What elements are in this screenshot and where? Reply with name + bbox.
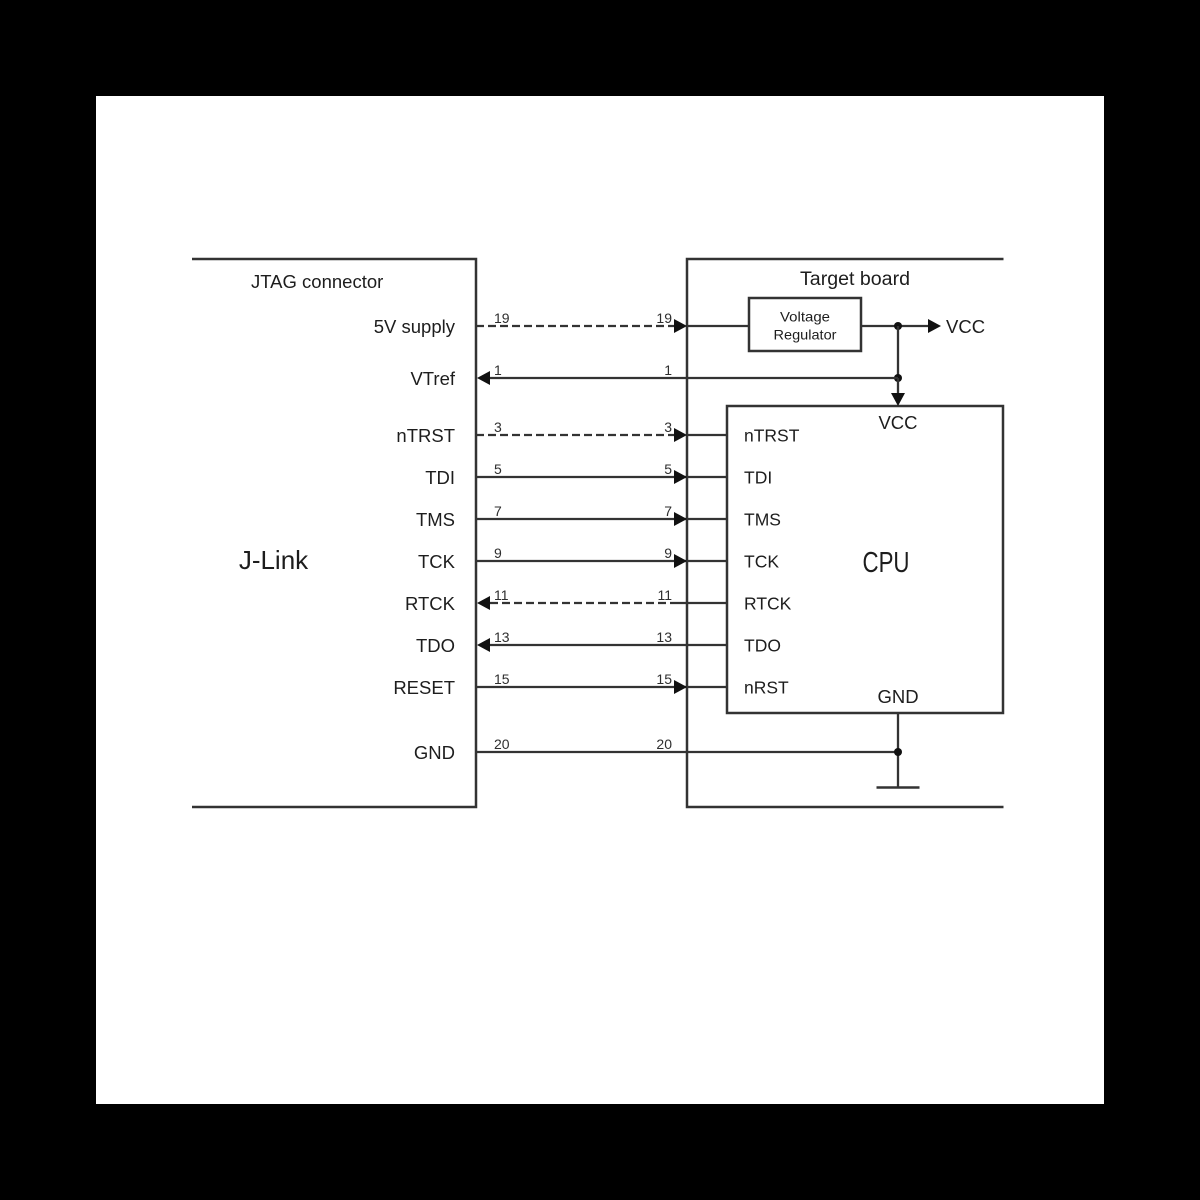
pin number 20 left bbox=[494, 736, 510, 752]
svg-text:20: 20 bbox=[656, 736, 672, 752]
label TMS left bbox=[416, 509, 455, 530]
pin number 5 left bbox=[494, 461, 502, 477]
label Target board bbox=[800, 269, 910, 290]
svg-text:TMS: TMS bbox=[416, 509, 455, 530]
wire pin13 TDO bbox=[490, 644, 727, 646]
svg-text:5: 5 bbox=[664, 461, 672, 477]
svg-text:15: 15 bbox=[656, 671, 672, 687]
pin number 7 left bbox=[494, 503, 502, 519]
svg-text:3: 3 bbox=[494, 419, 502, 435]
arrowhead pin13 into JTAG bbox=[477, 638, 490, 652]
pin number 15 left bbox=[494, 671, 510, 687]
pin number 11 left bbox=[494, 587, 509, 603]
svg-text:Target board: Target board bbox=[800, 269, 910, 290]
svg-text:J-Link: J-Link bbox=[239, 545, 309, 575]
svg-text:VCC: VCC bbox=[946, 316, 985, 337]
pin number 11 right bbox=[657, 587, 672, 603]
arrowhead VCC into CPU bbox=[891, 393, 905, 406]
pin number 19 right bbox=[656, 310, 672, 326]
svg-text:TDO: TDO bbox=[416, 635, 455, 656]
svg-text:7: 7 bbox=[664, 503, 672, 519]
label TDI left bbox=[425, 467, 455, 488]
junction dot VTref line bbox=[894, 374, 902, 382]
wire VCC down to VTref junction bbox=[897, 326, 899, 378]
svg-text:TCK: TCK bbox=[744, 552, 779, 572]
wire pin11 RTCK (dashed) bbox=[490, 602, 678, 604]
label TCK left bbox=[418, 551, 456, 572]
wire pin9 TCK bbox=[476, 560, 727, 562]
svg-text:TMS: TMS bbox=[744, 510, 781, 530]
wire pin3 inside target bbox=[687, 434, 727, 436]
svg-text:5V supply: 5V supply bbox=[374, 316, 456, 337]
voltage regulator U1 bbox=[749, 298, 861, 351]
svg-text:1: 1 bbox=[664, 362, 672, 378]
svg-text:1: 1 bbox=[494, 362, 502, 378]
svg-text:JTAG connector: JTAG connector bbox=[251, 271, 383, 292]
svg-text:15: 15 bbox=[494, 671, 510, 687]
svg-text:nRST: nRST bbox=[744, 678, 789, 698]
svg-text:RTCK: RTCK bbox=[405, 593, 456, 614]
svg-text:CPU: CPU bbox=[863, 547, 910, 579]
wire pin3 nTRST (dashed) bbox=[476, 434, 678, 436]
pin number 13 left bbox=[494, 629, 510, 645]
arrowhead pin1 into JTAG bbox=[477, 371, 490, 385]
box JTAG connector (open on left) bbox=[192, 259, 476, 807]
label nTRST left bbox=[396, 425, 455, 446]
svg-text:9: 9 bbox=[494, 545, 502, 561]
svg-text:nTRST: nTRST bbox=[744, 426, 800, 446]
svg-text:Regulator: Regulator bbox=[774, 327, 837, 343]
svg-text:GND: GND bbox=[414, 742, 455, 763]
pin number 3 left bbox=[494, 419, 502, 435]
pin number 1 right bbox=[664, 362, 672, 378]
svg-text:9: 9 bbox=[664, 545, 672, 561]
svg-text:19: 19 bbox=[494, 310, 510, 326]
pin number 20 right bbox=[656, 736, 672, 752]
pin number 3 right bbox=[664, 419, 672, 435]
label 5V supply bbox=[374, 316, 456, 337]
svg-text:RTCK: RTCK bbox=[744, 594, 792, 614]
svg-text:19: 19 bbox=[656, 310, 672, 326]
pin number 5 right bbox=[664, 461, 672, 477]
pin number 15 right bbox=[656, 671, 672, 687]
svg-text:VCC: VCC bbox=[878, 412, 917, 433]
junction dot VCC line bbox=[894, 322, 902, 330]
wire GND stem from CPU bbox=[897, 713, 899, 787]
pin number 9 right bbox=[664, 545, 672, 561]
label RTCK left bbox=[405, 593, 456, 614]
label RESET left bbox=[393, 677, 455, 698]
svg-text:13: 13 bbox=[494, 629, 510, 645]
pin number 9 left bbox=[494, 545, 502, 561]
wire pin19 5V supply (dashed, JTAG to target) bbox=[476, 325, 678, 327]
box Target board (open on right) bbox=[687, 259, 1004, 807]
label CPU bbox=[863, 547, 910, 579]
label nRST inside CPU bbox=[744, 678, 789, 698]
pin number 7 right bbox=[664, 503, 672, 519]
wire pin5 TDI bbox=[476, 476, 727, 478]
wire pin11 inside target bbox=[678, 602, 727, 604]
wire pin7 TMS bbox=[476, 518, 727, 520]
pin number 13 right bbox=[656, 629, 672, 645]
label VCC net bbox=[946, 316, 985, 337]
svg-text:VTref: VTref bbox=[410, 368, 455, 389]
label VCC inside CPU bbox=[878, 412, 917, 433]
label TCK inside CPU bbox=[744, 552, 779, 572]
svg-text:nTRST: nTRST bbox=[396, 425, 455, 446]
svg-text:13: 13 bbox=[656, 629, 672, 645]
arrowhead pin9 into target bbox=[674, 554, 687, 568]
label TDO left bbox=[416, 635, 455, 656]
label GND left bbox=[414, 742, 455, 763]
label JTAG connector bbox=[251, 271, 383, 292]
svg-text:RESET: RESET bbox=[393, 677, 455, 698]
label GND inside CPU bbox=[877, 686, 918, 707]
label VTref bbox=[410, 368, 455, 389]
svg-text:20: 20 bbox=[494, 736, 510, 752]
ground symbol bbox=[877, 786, 920, 789]
label J-Link bbox=[239, 545, 309, 575]
svg-text:Voltage: Voltage bbox=[780, 309, 830, 325]
junction dot GND bbox=[894, 748, 902, 756]
svg-text:TDI: TDI bbox=[425, 467, 455, 488]
label TDO inside CPU bbox=[744, 636, 781, 656]
arrowhead pin3 into target bbox=[674, 428, 687, 442]
pin number 1 left bbox=[494, 362, 502, 378]
arrowhead pin19 into target board bbox=[674, 319, 687, 333]
svg-text:7: 7 bbox=[494, 503, 502, 519]
svg-text:TCK: TCK bbox=[418, 551, 456, 572]
wire pin20 GND bbox=[476, 751, 898, 753]
wire pin15 RESET bbox=[476, 686, 727, 688]
wire voltage regulator to VCC bbox=[861, 325, 929, 327]
arrowhead pin5 into target bbox=[674, 470, 687, 484]
svg-text:3: 3 bbox=[664, 419, 672, 435]
label TMS inside CPU bbox=[744, 510, 781, 530]
label nTRST inside CPU bbox=[744, 426, 800, 446]
arrowhead pin7 into target bbox=[674, 512, 687, 526]
svg-text:11: 11 bbox=[657, 587, 672, 603]
pin number 19 left bbox=[494, 310, 510, 326]
svg-text:TDI: TDI bbox=[744, 468, 772, 488]
svg-text:5: 5 bbox=[494, 461, 502, 477]
wire VCC down to CPU bbox=[897, 378, 899, 394]
svg-text:11: 11 bbox=[494, 587, 509, 603]
arrowhead pin11 into JTAG bbox=[477, 596, 490, 610]
label RTCK inside CPU bbox=[744, 594, 792, 614]
arrowhead pin15 into target bbox=[674, 680, 687, 694]
wire pin19 to voltage regulator bbox=[687, 325, 749, 327]
wire pin1 VTref bbox=[489, 377, 898, 379]
label TDI inside CPU bbox=[744, 468, 772, 488]
CPU U2 bbox=[727, 406, 1003, 713]
svg-text:TDO: TDO bbox=[744, 636, 781, 656]
arrowhead VCC bbox=[928, 319, 941, 333]
svg-text:GND: GND bbox=[877, 686, 918, 707]
